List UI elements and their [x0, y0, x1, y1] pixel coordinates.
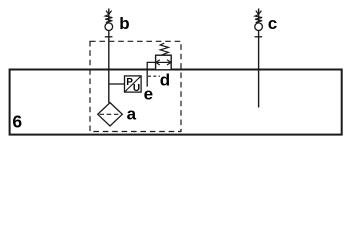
- breather b: circle: [105, 23, 113, 31]
- clogging indicator e: square: [125, 76, 142, 92]
- bypass valve d: spring: [160, 43, 168, 55]
- svg-text:d: d: [160, 71, 170, 90]
- breather b: flow arrowhead: [106, 11, 112, 15]
- wire: breather b line down to filter a: [108, 9, 110, 103]
- breather c: port tick: [255, 36, 263, 38]
- svg-text:U: U: [133, 83, 140, 94]
- svg-text:e: e: [144, 84, 153, 103]
- clogging indicator e: diagonal: [125, 76, 141, 92]
- tank 6 (reservoir outline): [10, 70, 342, 135]
- breather c: circle: [255, 23, 263, 31]
- breather c: spring zigzag: [255, 15, 262, 23]
- leader line to label d: [148, 75, 160, 77]
- svg-text:b: b: [119, 14, 129, 33]
- bypass valve d: body: [156, 55, 172, 70]
- wire: branch to clogging indicator e: [109, 83, 125, 85]
- dashed enclosure (filter assembly): [90, 41, 181, 131]
- breather b: spring zigzag: [105, 15, 112, 23]
- svg-text:c: c: [268, 14, 277, 33]
- filter element a: dashed mesh line: [100, 113, 121, 115]
- bypass valve d: double arrow: [156, 61, 171, 63]
- filter element a: diamond: [98, 103, 123, 126]
- wire: bypass valve connection L: [147, 62, 155, 86]
- svg-text:6: 6: [12, 111, 22, 131]
- breather c: wire down into tank: [258, 9, 260, 108]
- breather c: flow arrowhead: [256, 11, 262, 15]
- svg-text:a: a: [127, 104, 137, 123]
- breather b: port tick: [105, 36, 113, 38]
